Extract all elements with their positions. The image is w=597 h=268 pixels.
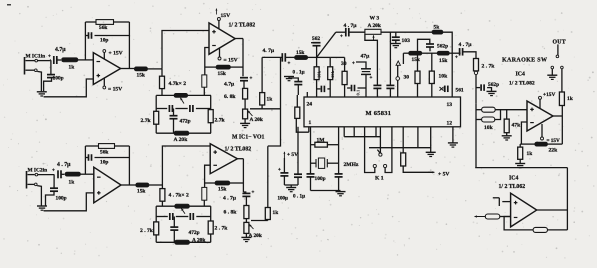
capacitor 472p ch2 xyxy=(170,217,199,243)
label M IC1-VO1 xyxy=(232,135,264,141)
svg-text:OUT: OUT xyxy=(553,40,566,46)
svg-text:4 . 7k× 2: 4 . 7k× 2 xyxy=(169,193,189,199)
capacitor 47u electrolytic xyxy=(352,54,373,98)
svg-text:15k: 15k xyxy=(137,73,145,79)
IC M65831 body xyxy=(304,97,461,127)
label IC4 b xyxy=(509,176,518,182)
svg-text:1: 1 xyxy=(309,120,312,126)
svg-text:+: + xyxy=(370,76,373,81)
resistor 1M xyxy=(311,137,339,147)
svg-text:4 . 7μ: 4 . 7μ xyxy=(57,162,71,168)
capacitor 0.1u near pin24 xyxy=(289,70,305,96)
resistor 10k row2 xyxy=(476,110,501,122)
label 1/2 TL082 IC4a xyxy=(509,81,535,87)
svg-text:4. 7μ: 4. 7μ xyxy=(263,48,275,54)
svg-text:100p: 100p xyxy=(53,76,64,82)
svg-text:= 15V: = 15V xyxy=(108,87,122,93)
svg-text:1M: 1M xyxy=(317,137,326,143)
wire jack tip to node A1 xyxy=(38,55,52,61)
resistor 15k mix xyxy=(295,50,308,60)
svg-text:24: 24 xyxy=(307,102,313,108)
wire to junction J xyxy=(308,56,317,58)
svg-text:100p: 100p xyxy=(56,196,67,202)
wire U4 output down xyxy=(237,159,243,192)
resistor to +5V xyxy=(401,127,434,173)
svg-text:K 1: K 1 xyxy=(375,176,384,182)
svg-text:30: 30 xyxy=(341,61,347,67)
resistor 2.7k right ch2 xyxy=(208,206,228,242)
bottom rail ch1 with pot A20k xyxy=(156,131,211,135)
svg-text:47k: 47k xyxy=(512,123,522,129)
ground pin 12 xyxy=(448,127,458,147)
capacitor 100p ch2 xyxy=(46,175,67,206)
svg-text:+15V: +15V xyxy=(543,92,555,98)
svg-text:2 . 7k: 2 . 7k xyxy=(215,226,229,232)
svg-text:472p: 472p xyxy=(180,119,191,125)
wire feedback to output xyxy=(121,22,135,69)
capacitor 4.7u ch1 out xyxy=(224,77,253,88)
pot A20k ch2 out xyxy=(244,222,262,239)
supply +15V U1 xyxy=(103,50,123,59)
supply +15V IC4a xyxy=(539,92,556,109)
pin 1 label xyxy=(309,120,312,126)
feedback resistor 56k R2 xyxy=(85,20,129,60)
pin 13 label xyxy=(447,102,453,108)
switch contact circle karaoke xyxy=(474,71,477,74)
feedback resistor 56k ch2 xyxy=(85,144,129,175)
feedback wire IC4a minus xyxy=(521,122,527,144)
wire rail corner up xyxy=(0,0,1,1)
svg-text:6 . 8k: 6 . 8k xyxy=(224,210,238,216)
capacitor between columns xyxy=(317,86,331,93)
svg-text:56k: 56k xyxy=(99,25,107,31)
capacitor 562p to ground karaoke xyxy=(476,82,499,96)
rail2 ch2 with caps xyxy=(156,213,211,220)
resistor column x330 above IC xyxy=(317,57,336,97)
ground near pin24 xyxy=(284,77,294,81)
bus under IC right xyxy=(369,127,431,148)
svg-text:1/ 2 TL082: 1/ 2 TL082 xyxy=(509,81,535,87)
svg-text:1k: 1k xyxy=(69,180,75,186)
svg-text:4 . 7μ: 4 . 7μ xyxy=(344,23,358,29)
svg-text:15k: 15k xyxy=(439,58,447,64)
crystal 2MHz X1 xyxy=(311,158,359,168)
wire to 2.7k xyxy=(463,52,476,59)
svg-text:103: 103 xyxy=(402,38,411,44)
wire row xyxy=(403,53,437,64)
wire xyxy=(57,59,61,61)
crystal column left xyxy=(307,127,315,191)
label 4.7k x 2 ch2 xyxy=(169,193,189,199)
rail IC4b top xyxy=(475,167,567,169)
capacitor 4.7u C mix xyxy=(263,48,291,67)
capacitor 103 to ground xyxy=(391,32,410,48)
resistor 30 column x344 xyxy=(330,57,347,97)
feedback resistor 15k U4 xyxy=(205,181,244,193)
capacitor 4.7u ch2 xyxy=(57,162,71,178)
svg-text:M IC1− VO1: M IC1− VO1 xyxy=(232,135,264,141)
svg-text:W 3: W 3 xyxy=(370,16,380,22)
svg-text:15k: 15k xyxy=(218,187,226,193)
svg-text:15V: 15V xyxy=(221,13,231,19)
wire node B2 up to U4 plus xyxy=(162,146,210,185)
capacitor 4.7u ch2 out xyxy=(223,191,255,202)
label 100p xyxy=(53,76,64,82)
capacitor 0.1u rotated xyxy=(347,85,366,96)
svg-text:+ 5V: + 5V xyxy=(287,152,298,158)
svg-text:15k: 15k xyxy=(137,189,145,195)
ground under pot ch2 xyxy=(241,233,251,241)
resistor 5k top xyxy=(432,25,443,35)
arrow +5V right xyxy=(428,171,449,177)
wire node B1 up to U2 plus input xyxy=(162,31,209,69)
supply +15V U2 xyxy=(215,9,230,29)
label KARAOKE SW xyxy=(502,58,547,64)
resistor 1k R ch2 xyxy=(65,172,81,186)
input jack J1 M IC1in xyxy=(25,57,38,75)
label A20k ch2 xyxy=(192,237,205,243)
svg-text:15k: 15k xyxy=(412,57,420,63)
svg-text:A 20k: A 20k xyxy=(250,117,263,123)
label A20k ch1 xyxy=(174,137,189,143)
input jack J2 M IC2in xyxy=(27,171,38,189)
wire mix node to 4.7u xyxy=(262,56,282,58)
bus under IC left xyxy=(344,127,380,137)
resistor column x316 above IC xyxy=(314,57,321,97)
corner mark xyxy=(7,4,11,6)
pin 24 stub xyxy=(306,92,308,97)
ground crystal xyxy=(311,191,346,196)
feedback capacitor 10p ch2 xyxy=(85,154,129,165)
resistor 2.7k left ch2 xyxy=(140,206,159,242)
resistor 1k mix ch2 xyxy=(265,146,278,220)
label 1/2 TL062 xyxy=(499,184,526,190)
svg-text:4 . 7μ: 4 . 7μ xyxy=(459,42,473,48)
ground input 2 xyxy=(37,186,47,211)
resistor 47k to ground xyxy=(502,110,521,140)
label K1 xyxy=(375,176,384,182)
svg-text:= 15V: = 15V xyxy=(224,58,238,64)
label M 65831 xyxy=(366,110,392,117)
svg-text:1k: 1k xyxy=(527,151,533,157)
resistor 10k row1 xyxy=(476,107,527,112)
feedback wire U4 minus xyxy=(205,165,211,187)
resistor 4.7k left ch2 xyxy=(160,185,165,206)
svg-text:+: + xyxy=(288,62,291,67)
capacitor 4.7u karaoke xyxy=(455,42,472,61)
svg-text:M 65831: M 65831 xyxy=(366,110,392,117)
OUT ground xyxy=(547,66,557,79)
svg-text:10p: 10p xyxy=(100,160,108,166)
svg-text:0.1: 0.1 xyxy=(356,89,361,95)
capacitor 561 xyxy=(440,86,464,94)
wire to op-amp U3 xyxy=(81,173,94,175)
wire jack to node A2 xyxy=(38,169,55,175)
diagonal wire to top rail xyxy=(317,32,336,57)
svg-text:IC4: IC4 xyxy=(509,176,518,182)
wire xyxy=(285,56,294,58)
wire top rail corner xyxy=(443,32,452,53)
arrow input IC4b xyxy=(475,215,486,217)
supply -15V U1 xyxy=(103,78,122,93)
wire pin1 stub xyxy=(308,127,310,132)
feedback capacitor 10p C3 xyxy=(85,32,129,43)
svg-text:KARAOKE SW: KARAOKE SW xyxy=(502,58,547,64)
resistor 2.7k left ch1 xyxy=(141,95,159,133)
svg-text:562p: 562p xyxy=(437,44,448,50)
svg-text:1/ 2 TL062: 1/ 2 TL062 xyxy=(499,184,526,190)
supply -15V U2 xyxy=(218,48,238,64)
svg-text:562p: 562p xyxy=(488,82,499,88)
svg-text:+: + xyxy=(352,62,355,67)
svg-text:+: + xyxy=(48,55,51,60)
capacitor 4.7u top rail xyxy=(336,23,357,40)
svg-text:1/ 2 TL082: 1/ 2 TL082 xyxy=(225,147,252,153)
svg-text:1k: 1k xyxy=(267,97,273,103)
wire xyxy=(245,219,247,223)
feedback resistor 15k U2 xyxy=(205,65,243,77)
svg-text:5k: 5k xyxy=(434,25,440,31)
pot mid ch1 xyxy=(174,93,188,103)
capacitor 562p over 15k a xyxy=(418,39,449,51)
wire xyxy=(349,31,365,33)
resistor 2.7k right ch1 xyxy=(208,95,225,133)
ground input 1 xyxy=(37,71,47,96)
wire 15k to node B1 xyxy=(148,68,162,70)
svg-text:100μ: 100μ xyxy=(278,197,289,202)
label 10k rows xyxy=(484,125,494,131)
svg-text:+: + xyxy=(52,169,55,174)
supply +5V node xyxy=(283,152,298,173)
op-amp U2 1/2 TL082 ch1 xyxy=(209,23,235,54)
resistor IC4b minus input xyxy=(485,214,510,219)
resistor at pin1 xyxy=(295,95,309,132)
label 1/2 TL082 U2 xyxy=(229,23,256,29)
op-amp U4 1/2 TL082 ch2 xyxy=(210,144,237,174)
resistor 15k row b xyxy=(437,51,449,64)
svg-text:1/ 2 TL082: 1/ 2 TL082 xyxy=(229,23,256,29)
resistor 6.8k ch2 xyxy=(224,206,249,219)
trigger symbol triangle and circle xyxy=(396,61,400,97)
svg-text:0 . 1μ: 0 . 1μ xyxy=(293,70,305,76)
resistor 15k row a xyxy=(409,51,422,63)
op-amp IC4a xyxy=(527,101,553,131)
wire non-inverting to ground rail xyxy=(44,79,94,97)
svg-text:A 20k: A 20k xyxy=(249,233,262,239)
wire xyxy=(61,173,65,175)
wire feedback to output ch2 xyxy=(121,146,136,185)
wiper node wire ch2 xyxy=(251,220,268,222)
wire row to column xyxy=(449,52,460,54)
svg-text:M IC1in: M IC1in xyxy=(26,54,46,60)
resistor 4.7k right ch2 xyxy=(202,187,207,206)
svg-text:4 . 7μ: 4 . 7μ xyxy=(223,196,237,202)
svg-text:1k: 1k xyxy=(273,210,279,216)
label 100p crystal xyxy=(315,176,326,182)
svg-text:= 15V: = 15V xyxy=(547,138,560,144)
svg-text:100p: 100p xyxy=(315,176,326,182)
svg-text:+: + xyxy=(252,191,255,196)
trunk wire mix down xyxy=(268,57,281,146)
svg-text:A 20k: A 20k xyxy=(174,137,189,143)
rail1 ch2 with pot xyxy=(156,204,211,214)
supply -15V IC4a xyxy=(541,124,560,144)
feedback wire U2 minus xyxy=(205,48,209,75)
wire IC4b output loop xyxy=(537,168,568,230)
wire down xyxy=(475,75,477,104)
wire xyxy=(244,99,246,109)
svg-text:2 . 7k: 2 . 7k xyxy=(140,228,154,234)
svg-text:+: + xyxy=(455,56,458,61)
resistor 4.7k right ch1 xyxy=(203,75,205,96)
svg-text:472p: 472p xyxy=(189,230,200,236)
feedback resistor IC4b xyxy=(504,217,567,233)
svg-text:15k: 15k xyxy=(330,70,335,78)
capacitor 562 at junction xyxy=(311,36,321,57)
resistor 22k feedback xyxy=(520,142,562,154)
wire column pin13 xyxy=(451,53,453,87)
svg-text:12: 12 xyxy=(447,121,453,127)
svg-text:30: 30 xyxy=(404,75,410,81)
wire to op-amp U1 inverting input xyxy=(78,59,93,61)
svg-text:+: + xyxy=(250,77,253,82)
svg-text:4.7μ: 4.7μ xyxy=(55,47,66,53)
rail2 ch1 with caps xyxy=(156,105,211,112)
wire xyxy=(243,81,245,89)
pot W3 wiper loop xyxy=(365,34,375,40)
label 1/2 TL082 U4 xyxy=(225,147,252,153)
wire U2 output down xyxy=(235,39,243,77)
svg-text:1k: 1k xyxy=(69,65,75,71)
label M IC2in xyxy=(28,168,48,174)
crystal column right xyxy=(335,127,343,191)
column x390 from top rail xyxy=(386,32,394,97)
svg-text:562: 562 xyxy=(312,36,320,42)
capacitor 4.7u C1 xyxy=(54,47,66,64)
OUT jack xyxy=(553,40,566,93)
resistor 15k ch2 xyxy=(136,183,149,195)
svg-text:1k: 1k xyxy=(567,96,574,102)
capacitor 0.1u filter xyxy=(293,127,305,200)
svg-text:+: + xyxy=(278,168,281,173)
svg-text:56k: 56k xyxy=(100,150,108,156)
rail1 ch1 with potentiometer xyxy=(156,94,211,96)
column x377 from W3 wiper xyxy=(373,40,381,97)
svg-text:+: + xyxy=(340,35,343,40)
svg-text:22k: 22k xyxy=(549,148,559,154)
wire xyxy=(381,31,432,33)
resistor 30 b column xyxy=(404,55,421,97)
resistor 2.7k karaoke xyxy=(474,59,496,71)
ground filter caps xyxy=(284,185,298,192)
pin 24 label xyxy=(307,102,313,108)
wire IC4a output xyxy=(553,115,562,117)
bottom rail ch2 with pot A20k xyxy=(156,240,211,244)
resistor 4.7k left ch1 xyxy=(160,69,165,96)
switch K1 xyxy=(365,127,392,173)
svg-text:2 . 7k: 2 . 7k xyxy=(482,64,496,70)
svg-text:2.7k: 2.7k xyxy=(215,118,226,124)
svg-text:561: 561 xyxy=(456,88,464,94)
ground pin x430 xyxy=(426,127,436,157)
svg-text:+ 5V: + 5V xyxy=(438,172,449,178)
pot W3 A20k xyxy=(365,16,381,35)
capacitor 100p C2 xyxy=(44,60,55,91)
resistor 15k R3 xyxy=(134,67,147,79)
resistor 1k output xyxy=(559,92,573,106)
resistor 1k to ground IC4a xyxy=(515,144,532,168)
wire column pin13 lower xyxy=(451,87,453,98)
wire xyxy=(243,192,246,206)
svg-text:6. 8k: 6. 8k xyxy=(224,94,236,100)
op-amp U3 first stage ch2 xyxy=(94,167,121,203)
svg-text:4.7k× 2: 4.7k× 2 xyxy=(169,81,187,87)
resistor 4.7k right box ch1 xyxy=(202,75,207,87)
svg-text:15k: 15k xyxy=(218,71,226,77)
wire to node B2 xyxy=(149,184,162,186)
resistor 10k b column xyxy=(429,53,448,97)
output column xyxy=(561,106,563,145)
svg-text:10k: 10k xyxy=(316,70,321,78)
svg-text:+ 15V: + 15V xyxy=(109,51,123,57)
wire column to rows xyxy=(475,104,477,168)
label IC4 xyxy=(516,72,525,78)
resistor 6.8k ch1 xyxy=(224,88,248,100)
resistor 1k R1 xyxy=(62,58,79,71)
svg-text:10p: 10p xyxy=(100,38,108,44)
svg-text:2MHz: 2MHz xyxy=(344,162,359,168)
svg-text:IC4: IC4 xyxy=(516,72,525,78)
capacitor 100u filter xyxy=(278,168,289,202)
capacitor at IC4b plus input xyxy=(493,198,511,206)
svg-text:M IC2in: M IC2in xyxy=(28,168,48,174)
svg-text:4.7μ: 4.7μ xyxy=(224,82,235,88)
svg-text:2.7k: 2.7k xyxy=(141,118,152,124)
svg-text:10k: 10k xyxy=(484,125,494,131)
svg-text:15k: 15k xyxy=(296,50,304,56)
pin 12 label xyxy=(447,121,453,127)
ground under pot xyxy=(240,119,250,128)
label 4.7k x 2 xyxy=(169,81,187,87)
svg-text:47μ: 47μ xyxy=(361,54,371,60)
pot A20k ch1 out xyxy=(243,109,263,123)
svg-text:0 . 1μ: 0 . 1μ xyxy=(293,194,305,200)
wiper node wire ch1 xyxy=(250,108,281,110)
op-amp IC4b xyxy=(511,193,537,227)
label M IC1in xyxy=(26,54,46,60)
svg-text:A 20k: A 20k xyxy=(368,23,381,29)
capacitor 472p ch1 xyxy=(170,109,191,134)
op-amp U1 first stage ch1 xyxy=(93,53,120,85)
svg-text:13: 13 xyxy=(447,102,453,108)
svg-text:10k: 10k xyxy=(439,74,449,80)
wire non-inverting ch2 ground rail xyxy=(44,193,94,211)
resistor 1k mix ch1 xyxy=(260,57,273,108)
svg-text:A 20k: A 20k xyxy=(192,237,205,243)
